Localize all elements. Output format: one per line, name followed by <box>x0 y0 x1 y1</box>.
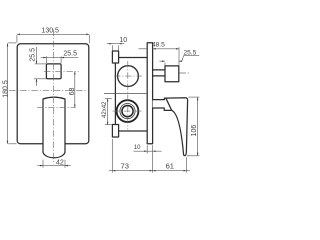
svg-text:42: 42 <box>56 160 64 167</box>
svg-text:61: 61 <box>166 161 174 170</box>
svg-text:68: 68 <box>69 88 76 96</box>
svg-text:10: 10 <box>134 145 141 151</box>
svg-text:130.5: 130.5 <box>41 27 59 34</box>
svg-text:180.5: 180.5 <box>3 80 10 98</box>
svg-text:106: 106 <box>191 125 198 137</box>
svg-text:73: 73 <box>120 161 128 170</box>
svg-text:25.5: 25.5 <box>29 48 36 62</box>
svg-text:48.5: 48.5 <box>152 42 165 49</box>
svg-text:42x42: 42x42 <box>102 101 108 118</box>
svg-text:25.5: 25.5 <box>183 50 196 57</box>
svg-text:25.5: 25.5 <box>63 51 77 58</box>
svg-text:10: 10 <box>119 37 127 44</box>
